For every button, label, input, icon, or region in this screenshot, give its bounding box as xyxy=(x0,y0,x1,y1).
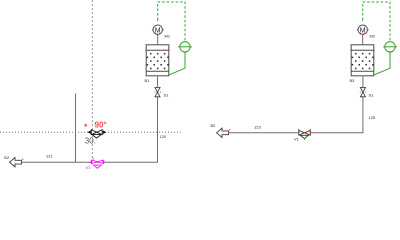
svg-text:30.: 30. xyxy=(85,137,96,146)
svg-text:M1: M1 xyxy=(165,34,171,39)
svg-text:V1: V1 xyxy=(294,137,300,142)
svg-text:M2: M2 xyxy=(370,34,376,39)
svg-text:B1: B1 xyxy=(145,78,151,83)
svg-text:S1: S1 xyxy=(369,93,375,98)
svg-text:M: M xyxy=(155,27,161,34)
svg-text:125: 125 xyxy=(369,115,376,120)
svg-text:B3: B3 xyxy=(350,78,356,83)
svg-text:90°: 90° xyxy=(95,121,107,130)
svg-text:S1: S1 xyxy=(164,93,170,98)
svg-text:121: 121 xyxy=(46,154,53,159)
svg-text:123: 123 xyxy=(254,124,261,129)
svg-text:120: 120 xyxy=(160,134,167,139)
svg-text:B2: B2 xyxy=(4,155,10,160)
svg-text:M: M xyxy=(360,27,366,34)
svg-text:V1: V1 xyxy=(86,165,92,170)
svg-text:B2: B2 xyxy=(211,123,217,128)
